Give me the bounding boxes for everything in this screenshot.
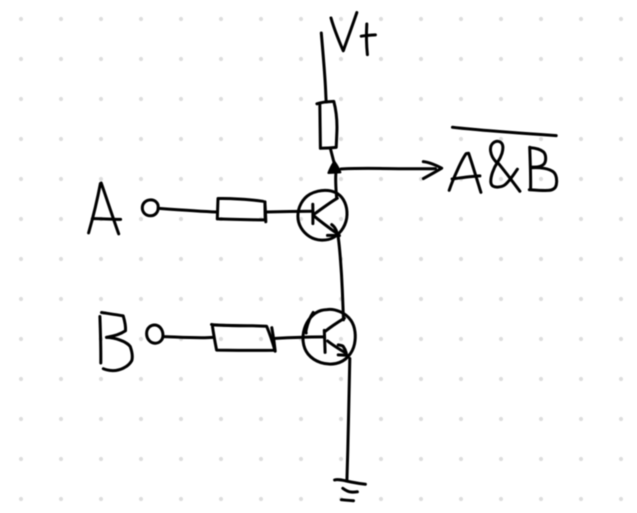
resistor R3 [212,325,276,352]
arrowhead output [423,162,441,179]
terminal B [147,325,163,343]
overline over A&B [452,127,556,135]
wire junction to Q1 collector [334,173,338,198]
label A [89,183,121,234]
resistor R1 [317,101,337,148]
label B [100,313,132,371]
wire R3 to Q2 base [276,337,325,339]
wire Q1 emitter to Q2 collector [338,236,344,320]
transistor Q1 [298,190,347,240]
label V+ [331,13,375,55]
wire Q2 emitter to ground [347,359,350,482]
wire B to R3 [163,337,213,338]
wire R1 to junction [330,148,334,162]
transistor Q2 [303,309,355,364]
terminal A [142,200,158,216]
wire A to R2 [158,208,216,212]
node junction (filled triangle) [329,162,341,173]
wire V+ to R1 [321,33,326,102]
ground [335,480,366,501]
resistor R2 [217,198,265,221]
wire R2 to Q1 base [266,210,313,214]
net label A&B [449,141,556,192]
wire junction to output arrow [341,167,436,171]
